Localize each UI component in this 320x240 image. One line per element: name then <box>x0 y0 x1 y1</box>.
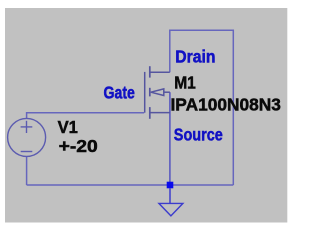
transistor M1 (n-channel MOSFET) <box>145 66 170 119</box>
body arrow <box>151 89 164 96</box>
body stub <box>164 91 170 93</box>
ground symbol <box>159 188 183 216</box>
schematic canvas background <box>5 8 287 223</box>
voltage source V1 <box>8 118 46 156</box>
svg-text:Gate: Gate <box>104 83 136 103</box>
svg-text:Source: Source <box>174 125 223 145</box>
svg-text:Drain: Drain <box>175 46 215 66</box>
wire: source riser from M1 to junction <box>169 92 171 185</box>
junction node at source/ground <box>167 182 174 189</box>
svg-text:+-20: +-20 <box>59 136 98 156</box>
wire: drain stub riser and top wire to right rail (net Drain) <box>170 30 234 185</box>
drain pin stub <box>150 71 169 73</box>
svg-text:M1: M1 <box>174 73 196 93</box>
channel segment drain <box>149 66 151 77</box>
channel segment body <box>149 88 151 97</box>
channel segment source <box>149 107 151 119</box>
wire: V1 minus stub <box>26 156 28 185</box>
source pin stub <box>150 112 170 114</box>
gate plate <box>144 72 146 113</box>
svg-text:V1: V1 <box>58 117 79 137</box>
wire: V1 plus to gate (net Gate) <box>27 113 145 119</box>
svg-text:IPA100N08N3: IPA100N08N3 <box>171 95 282 115</box>
wire: bottom wire (net Source / 0) <box>27 184 234 186</box>
